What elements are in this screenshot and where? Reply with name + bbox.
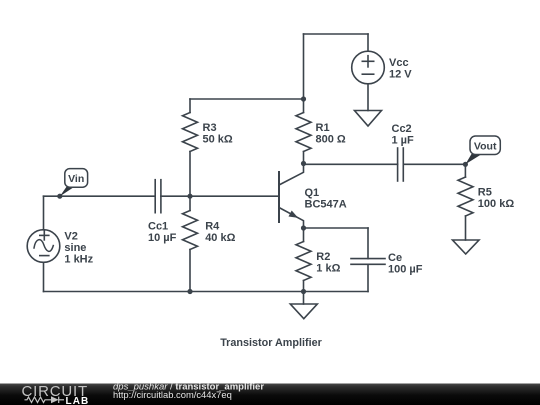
svg-text:40 kΩ: 40 kΩ [205, 232, 235, 244]
svg-text:Cc1: Cc1 [148, 221, 168, 233]
svg-text:LAB: LAB [66, 396, 90, 405]
svg-text:12 V: 12 V [389, 69, 412, 81]
svg-text:R3: R3 [203, 122, 217, 134]
svg-text:50 kΩ: 50 kΩ [203, 134, 233, 146]
svg-text:http://circuitlab.com/c44x7eq: http://circuitlab.com/c44x7eq [113, 389, 232, 400]
svg-text:1 kΩ: 1 kΩ [316, 263, 340, 275]
svg-text:Q1: Q1 [305, 187, 320, 199]
svg-text:Vcc: Vcc [389, 57, 409, 69]
svg-text:Vout: Vout [474, 140, 497, 152]
svg-text:800 Ω: 800 Ω [316, 134, 346, 146]
svg-text:1 kHz: 1 kHz [64, 254, 93, 266]
svg-text:1 µF: 1 µF [392, 135, 415, 147]
svg-text:V2: V2 [64, 231, 77, 243]
svg-text:sine: sine [64, 242, 86, 254]
svg-text:R4: R4 [205, 221, 220, 233]
svg-text:Transistor Amplifier: Transistor Amplifier [220, 337, 322, 349]
svg-text:R1: R1 [316, 122, 330, 134]
svg-text:100 µF: 100 µF [388, 264, 423, 276]
svg-text:R2: R2 [316, 251, 330, 263]
svg-text:Ce: Ce [388, 252, 402, 264]
svg-text:Cc2: Cc2 [392, 123, 412, 135]
svg-text:BC547A: BC547A [305, 198, 347, 210]
svg-text:10 µF: 10 µF [148, 232, 177, 244]
svg-text:R5: R5 [478, 187, 492, 199]
svg-text:100 kΩ: 100 kΩ [478, 198, 515, 210]
svg-text:Vin: Vin [68, 173, 84, 185]
